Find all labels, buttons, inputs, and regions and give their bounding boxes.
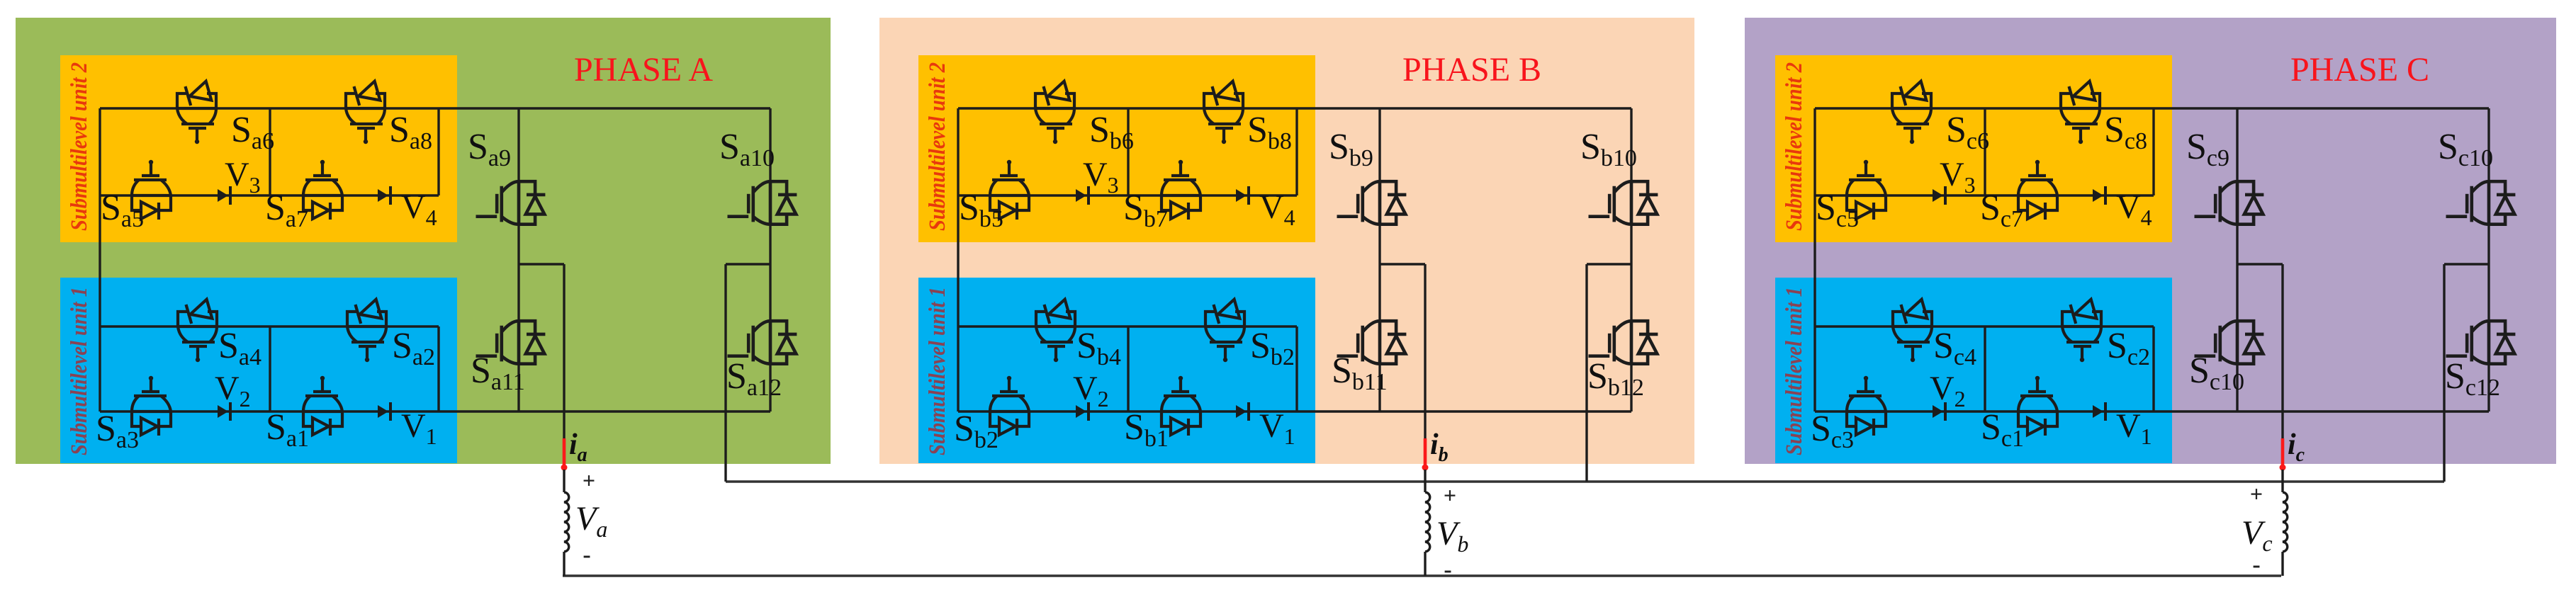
svg-text:Submultilevel unit 2: Submultilevel unit 2: [925, 62, 950, 231]
svg-text:+: +: [2250, 481, 2263, 506]
svg-text:Submultilevel unit 1: Submultilevel unit 1: [1782, 287, 1807, 455]
svg-text:Submultilevel unit 2: Submultilevel unit 2: [1782, 62, 1807, 231]
svg-text:+: +: [1444, 482, 1456, 508]
svg-text:Va: Va: [575, 500, 607, 542]
svg-text:PHASE C: PHASE C: [2290, 51, 2429, 89]
svg-text:PHASE B: PHASE B: [1402, 51, 1541, 89]
svg-text:Vb: Vb: [1436, 515, 1468, 557]
svg-text:Vc: Vc: [2242, 514, 2273, 556]
svg-text:PHASE A: PHASE A: [574, 51, 713, 89]
svg-text:Submultilevel unit 2: Submultilevel unit 2: [67, 62, 92, 231]
svg-text:+: +: [583, 467, 595, 493]
svg-text:Submultilevel unit 1: Submultilevel unit 1: [67, 287, 92, 455]
svg-text:-: -: [1444, 557, 1451, 583]
svg-text:-: -: [583, 542, 590, 568]
svg-text:Submultilevel unit 1: Submultilevel unit 1: [925, 287, 950, 455]
svg-text:-: -: [2252, 552, 2260, 578]
